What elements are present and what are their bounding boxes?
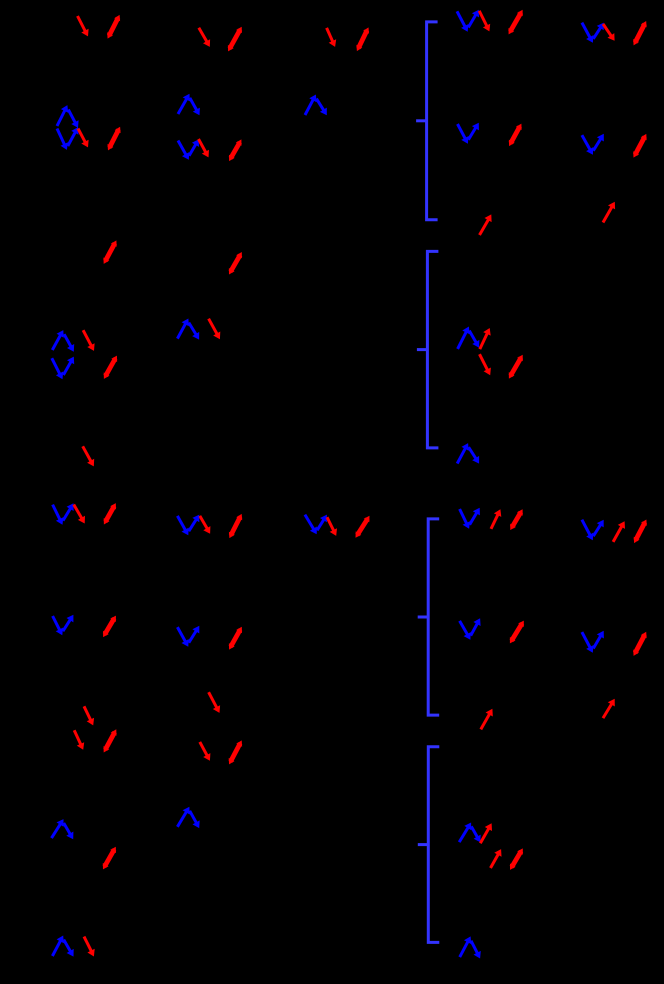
red spin arrow A1c (down): [78, 129, 89, 148]
red paired-spin arrow B1a: [103, 240, 116, 264]
blue coupling vee A4-1: [457, 10, 479, 32]
red spin arrow A3a (down): [327, 28, 337, 47]
blue coupling lambda D1: [52, 819, 74, 839]
red spin arrow B4a (up): [480, 328, 491, 349]
red spin arrow A5-1 (down): [603, 24, 615, 41]
red paired-spin arrow C5-2b: [633, 632, 646, 656]
blue coupling vee A2: [178, 139, 199, 160]
red paired-spin arrow C4-2b: [510, 621, 524, 644]
red spin arrow B1b (down): [83, 330, 95, 351]
red spin arrow A4-3 (up): [480, 214, 492, 235]
red spin arrow D2a (down): [200, 742, 211, 761]
blue coupling lambda D4-bot: [460, 936, 481, 958]
red paired-spin arrow B1c: [104, 356, 117, 379]
blue coupling lambda B1 (diamond top): [52, 330, 74, 352]
blue coupling vee C4-2: [460, 618, 481, 639]
red paired-spin arrow A5-2b: [633, 134, 646, 158]
red paired-spin arrow C3b: [356, 516, 370, 538]
red spin arrow A1a (down): [78, 16, 89, 36]
red spin arrow A5-3 (up): [603, 202, 615, 223]
red spin arrow C2e (down): [209, 692, 221, 713]
red paired-spin arrow A1d: [108, 127, 121, 151]
blue coupling lambda A3: [305, 95, 327, 116]
blue coupling vee A5-1: [582, 23, 604, 43]
blue coupling vee B1 (diamond bottom): [52, 357, 74, 380]
red paired-spin arrow C2b: [229, 514, 242, 538]
blue coupling vee C1c: [53, 615, 74, 636]
blue coupling vee C4-1: [460, 508, 480, 529]
red paired-spin arrow A5-1b: [633, 21, 646, 45]
red spin arrow B2b (down): [209, 319, 221, 340]
red paired-spin arrow B4c: [509, 355, 523, 379]
red paired-spin arrow C5-1b: [634, 520, 647, 544]
blue coupling lambda B2: [177, 319, 199, 340]
blue bracket C: [418, 519, 440, 715]
red paired-spin arrow A4-2b: [509, 124, 522, 147]
red paired-spin arrow A1b: [107, 15, 120, 39]
blue coupling vee A5-2: [582, 134, 604, 155]
blue coupling vee C2a: [177, 515, 199, 536]
blue coupling vee C5-1: [582, 520, 604, 541]
red paired-spin arrow D1c: [103, 847, 116, 870]
blue coupling vee C2c: [177, 626, 199, 647]
blue coupling lambda B4: [458, 327, 480, 349]
red paired-spin arrow A2b: [228, 27, 242, 52]
blue coupling vee C5-2: [582, 631, 604, 653]
blue coupling lambda D4: [459, 823, 481, 843]
blue coupling vee C1a: [53, 503, 74, 525]
red spin arrow A4-1 (down): [479, 11, 490, 32]
blue coupling lambda D2: [177, 807, 199, 828]
blue coupling diamond A1 (bottom bounce): [57, 127, 79, 150]
red paired-spin arrow C1b: [104, 503, 116, 524]
red paired-spin arrow A3b: [356, 27, 369, 51]
red paired-spin arrow A4-1b: [509, 10, 523, 35]
red spin arrow D1d (down): [84, 937, 95, 957]
red paired-spin arrow A2d: [229, 139, 242, 161]
blue coupling vee A4-2: [458, 123, 479, 144]
blue coupling vee C3a: [305, 515, 327, 535]
red spin arrow C5-3 (up): [603, 699, 615, 718]
red paired-spin arrow C4-1b: [510, 509, 523, 530]
red spin arrow C5-1 (up): [613, 521, 625, 542]
blue coupling lambda A2: [178, 94, 200, 116]
red spin arrow D4a (up): [480, 823, 492, 843]
red paired-spin arrow B2a: [229, 252, 242, 275]
red paired-spin arrow D4c: [510, 848, 523, 870]
red paired-spin arrow C2d: [229, 627, 242, 650]
red spin arrow C1a (down): [74, 505, 85, 524]
red spin arrow D4b (up): [491, 849, 502, 868]
red spin arrow D1a (down): [74, 730, 84, 750]
red paired-spin arrow D2b: [229, 740, 242, 764]
blue coupling diamond A1 (top bounce): [57, 105, 79, 128]
red spin arrow C3a (down): [327, 517, 337, 536]
red spin arrow C4-3 (up): [481, 709, 493, 730]
red spin arrow A2a (down): [199, 28, 210, 47]
red spin arrow B1d (down): [83, 446, 95, 466]
red paired-spin arrow C1d: [103, 616, 116, 638]
red paired-spin arrow D1b: [104, 729, 117, 752]
blue bracket B: [417, 251, 439, 448]
blue coupling lambda D1-bot: [52, 936, 73, 957]
red spin arrow A2c (down): [199, 139, 210, 157]
red spin arrow C1e (down): [84, 706, 94, 725]
blue bracket D: [418, 747, 440, 943]
red spin arrow C2a (down): [200, 516, 211, 534]
blue coupling lambda B4-bot: [457, 443, 479, 464]
red spin arrow C4-1 (up): [491, 509, 501, 529]
blue bracket A: [416, 22, 438, 220]
red spin arrow B4b (down): [480, 354, 491, 375]
